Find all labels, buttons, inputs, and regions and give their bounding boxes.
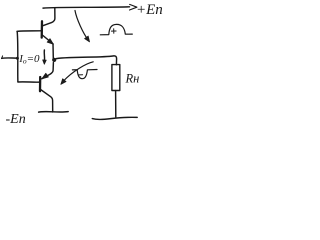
positive pulse symbol xyxy=(100,24,132,34)
transistor VT2 emitter wire from node xyxy=(42,63,54,79)
wire bottom rail under Rn xyxy=(92,117,137,119)
transistor VT2 base bar xyxy=(39,77,42,91)
resistor Rn bottom lead xyxy=(115,91,117,117)
wire top rail to +Ep xyxy=(43,7,130,8)
transistor VT1 base wire xyxy=(17,30,42,33)
wire -Ep rail xyxy=(39,111,69,114)
svg-text:-Еп: -Еп xyxy=(6,112,26,127)
wire base bus vertical xyxy=(16,32,19,82)
negative pulse symbol xyxy=(72,70,97,79)
arrowhead VT2 emitter xyxy=(42,73,49,79)
transistor VT2 base wire xyxy=(18,81,40,83)
transistor VT1 base bar xyxy=(41,21,44,37)
transistor VT1 emitter wire xyxy=(42,35,53,59)
current arrow Io down xyxy=(43,50,45,60)
label + on positive pulse xyxy=(111,29,116,34)
curved arrow negative half-wave xyxy=(63,62,94,82)
resistor Rn body xyxy=(112,65,120,91)
svg-text:Iо=0: Iо=0 xyxy=(18,53,40,66)
input start tick xyxy=(2,56,3,59)
curved arrow positive half-wave xyxy=(75,11,88,41)
transistor VT2 collector wire xyxy=(40,89,52,112)
svg-text:+Еп: +Еп xyxy=(136,2,163,18)
arrowhead VT1 emitter xyxy=(47,39,53,45)
wire output node to load Rn xyxy=(56,56,116,65)
node output junction xyxy=(52,58,56,62)
transistor VT1 collector wire xyxy=(43,8,55,26)
svg-text:Rн: Rн xyxy=(125,72,140,86)
node input junction xyxy=(16,57,19,60)
arrowhead +Ep rail xyxy=(130,4,137,10)
wire input from left xyxy=(2,57,18,59)
label - on negative pulse xyxy=(79,74,83,76)
